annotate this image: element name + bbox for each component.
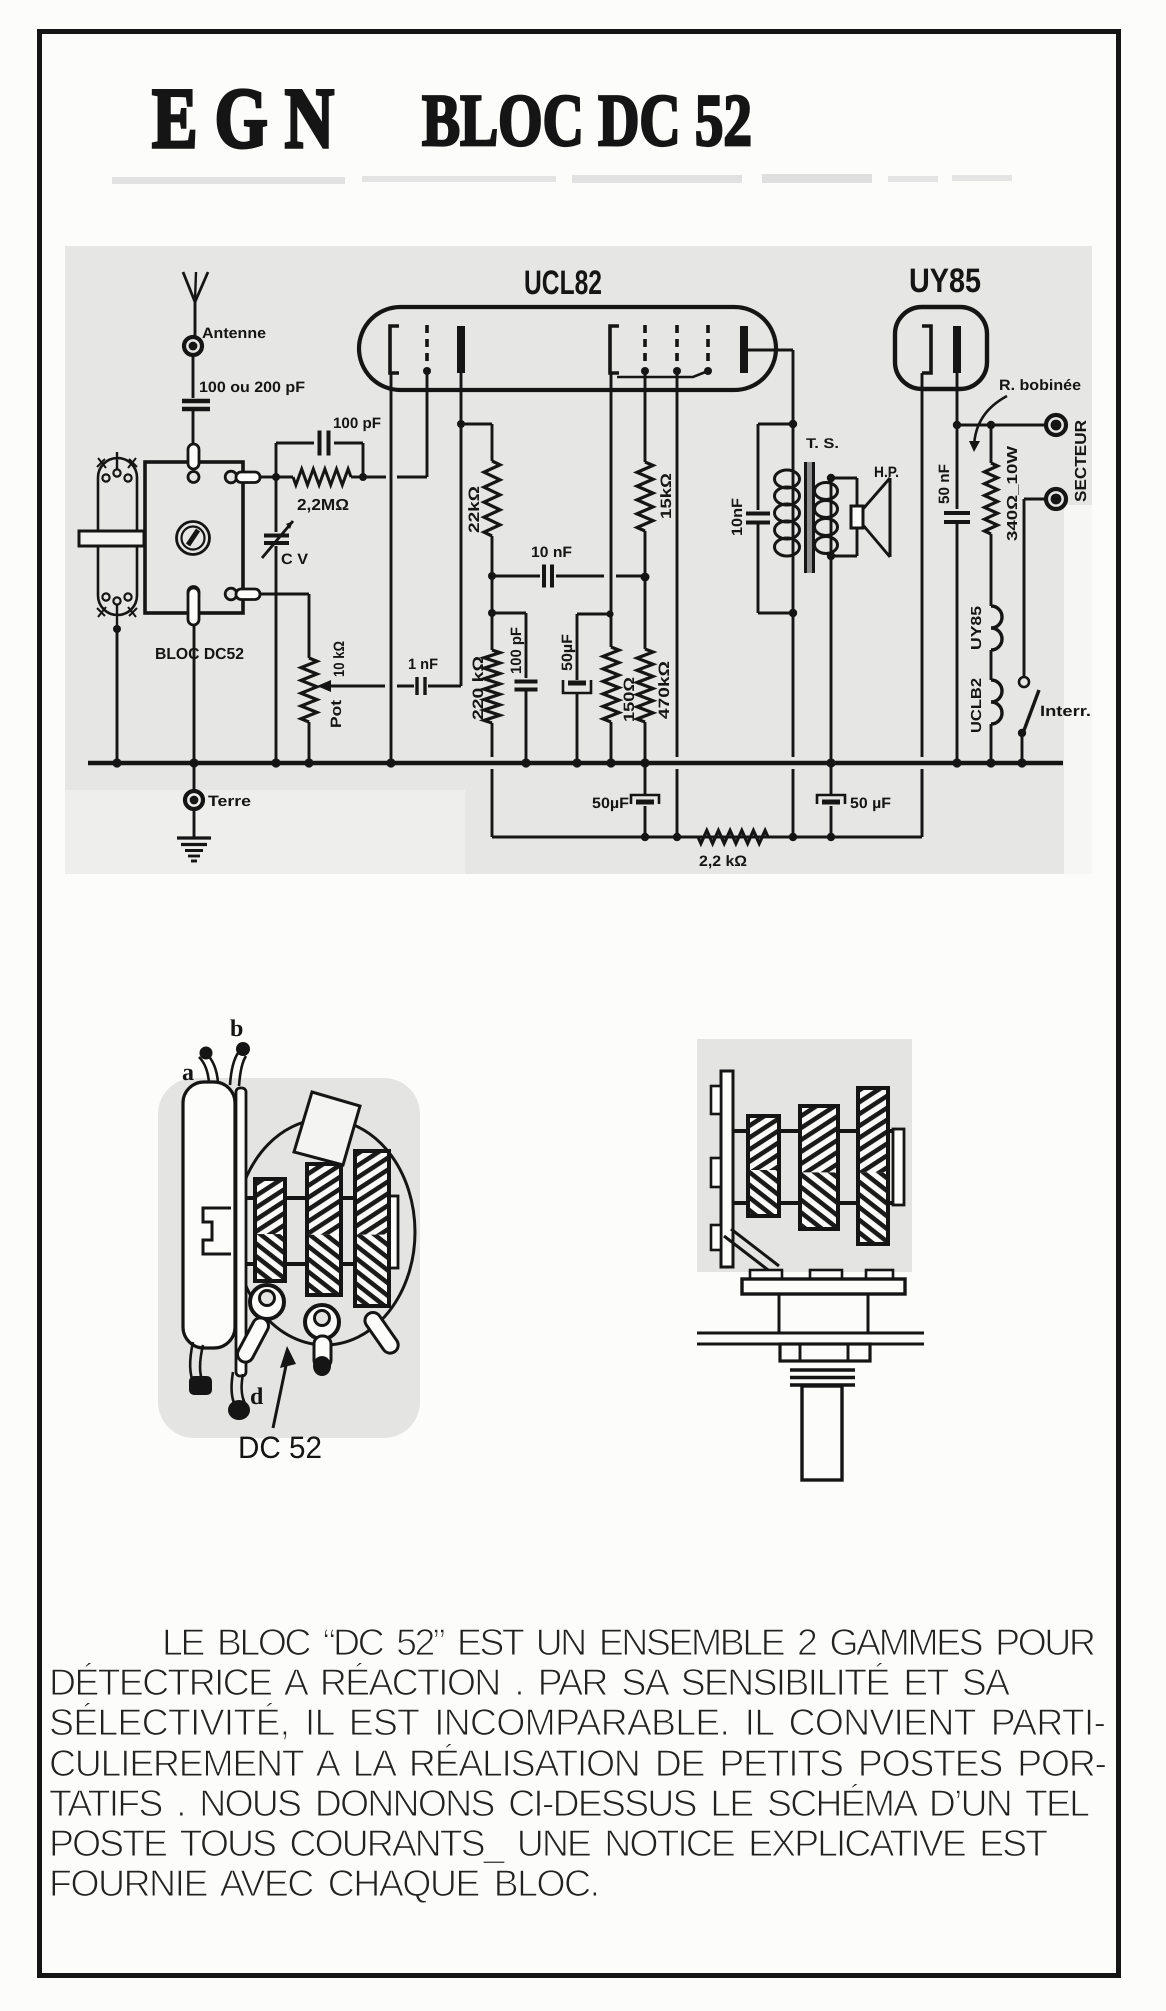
capacitor 10 nF (544, 565, 552, 588)
bloc top pin (188, 444, 199, 483)
title BLOC DC 52 (422, 80, 752, 162)
node TS sec bottom (827, 552, 835, 560)
svg-text:220 kΩ: 220 kΩ (470, 656, 487, 720)
wire 10nF to g1 node (556, 575, 645, 578)
svg-text:100 pF: 100 pF (333, 415, 381, 432)
label d (250, 1384, 264, 1410)
capacitor 50 µF cathode (563, 680, 591, 693)
lug right (362, 1309, 401, 1356)
label Terre (208, 793, 251, 810)
resistor 15 kΩ (637, 462, 653, 531)
node rail 677 (673, 833, 681, 841)
schematic scan background (65, 246, 1092, 874)
right drawing scan background (697, 1039, 912, 1272)
svg-text:CULIEREMENT A LA RÉALISATIO: CULIEREMENT A LA RÉALISATION DE PETITS P… (49, 1742, 1107, 1784)
svg-text:DÉTECTRICE A RÉACTION . PAR: DÉTECTRICE A RÉACTION . PAR SA SENSIBILI… (49, 1661, 1010, 1703)
label R. bobinee (999, 377, 1081, 394)
label BLOC DC52 (155, 646, 244, 663)
UCL82 triode anode (457, 326, 465, 373)
wire HT to secteur (957, 424, 1047, 427)
node rail 831 (827, 833, 835, 841)
wire node E to lower rail (hop bus) (792, 613, 795, 837)
transformer TS core (805, 462, 814, 573)
capacitor 100 pF top (320, 431, 329, 456)
label 150 Ω (621, 677, 638, 722)
label UY85 heater (969, 606, 985, 650)
wire to 50uF1 (577, 614, 610, 680)
ferrite rod (79, 531, 144, 546)
svg-text:LE BLOC “DC 52” EST UN ENS: LE BLOC “DC 52” EST UN ENSEMBLE 2 GAMMES… (162, 1621, 1096, 1663)
wire wiper to 1nF (hop at cathode) (330, 685, 414, 688)
UCL82 triode grid (423, 325, 431, 375)
UCL82 pentode anode (740, 326, 748, 373)
chassis (697, 1333, 924, 1344)
svg-text:10nF: 10nF (729, 498, 746, 536)
wire UY85 cathode to lower rail (hop bus) (921, 373, 924, 833)
nut (780, 1344, 870, 1361)
wire node C to 10nF (hop at 610) (492, 575, 540, 578)
node heater chain top (987, 421, 995, 429)
label SECTEUR (1073, 420, 1090, 502)
svg-text:2,2MΩ: 2,2MΩ (297, 497, 349, 514)
wire tone cap to node E (758, 523, 793, 613)
UCL82 pentode cathode (610, 326, 619, 373)
plate tab 2 (711, 1158, 721, 1187)
node anode TS (789, 420, 797, 428)
node anode junction (457, 420, 465, 428)
node rail 793 (789, 833, 797, 841)
svg-text:E G N: E G N (152, 70, 334, 166)
bloc right bottom pin (225, 588, 260, 600)
svg-text:BLOC DC52: BLOC DC52 (155, 646, 244, 663)
lug ring 2 (305, 1305, 339, 1376)
UCL82 g3-cathode strap (617, 371, 708, 377)
bus node x526 (521, 758, 530, 767)
wire 100pF to bus (525, 690, 528, 763)
wire heater to bus (990, 724, 993, 763)
label T. S. (806, 435, 839, 451)
capacitor CV variable (262, 477, 293, 558)
label 220 kΩ (470, 656, 487, 720)
plate bracket (203, 1208, 231, 1254)
capacitor 50 µF filter 2 (817, 795, 845, 804)
svg-text:d: d (250, 1384, 264, 1410)
capacitor 10nF tone (746, 514, 770, 523)
bus node x117 (112, 758, 121, 767)
label 100 ou 200 pF (199, 379, 305, 396)
bus node x194 (189, 758, 198, 767)
wire c bottom (189, 1342, 212, 1395)
svg-text:FOURNIE AVEC CHAQUE BLOC.: FOURNIE AVEC CHAQUE BLOC. (49, 1862, 600, 1904)
shaft (802, 1386, 842, 1480)
label H.P. (874, 464, 899, 481)
bus node x831 (826, 758, 835, 767)
arrow to DC 52 (273, 1346, 296, 1428)
wire node D to 220k (491, 613, 494, 650)
wire bloc pin to node A (260, 476, 276, 479)
label 50 µF cathode (559, 634, 576, 671)
svg-text:50µF: 50µF (592, 795, 629, 812)
svg-text:100 ou 200 pF: 100 ou 200 pF (199, 379, 305, 396)
tuning knob (177, 522, 210, 555)
svg-text:Antenne: Antenne (202, 325, 266, 342)
flag tab (294, 1092, 360, 1165)
svg-text:R. bobinée: R. bobinée (999, 377, 1081, 394)
label Pot (328, 700, 345, 728)
resistor 22 kΩ (484, 461, 500, 536)
label DC 52 (238, 1430, 322, 1465)
capacitor 50 nF (944, 425, 970, 763)
svg-text:UY85: UY85 (969, 606, 985, 650)
label 50 µF filter 1 (592, 795, 629, 812)
coil can outline (235, 1119, 415, 1345)
svg-text:22kΩ: 22kΩ (466, 486, 483, 533)
label UY85 (909, 262, 981, 300)
svg-text:T. S.: T. S. (806, 435, 839, 451)
wire capacitor to bloc pin (192, 411, 195, 446)
ground bus (88, 761, 1063, 766)
plate tab 1 (711, 1086, 721, 1114)
node TS sec top (827, 474, 835, 482)
label 340 Ω 10W (1005, 446, 1021, 541)
coil winding 1 (255, 1179, 285, 1281)
pot wiper arrow (317, 680, 331, 692)
wire 470k to bus (644, 722, 647, 763)
antenna (183, 272, 208, 337)
wire CV to bus (275, 546, 278, 763)
right winding 1 (748, 1116, 779, 1216)
svg-text:b: b (230, 1016, 243, 1042)
bus node x391 (386, 758, 395, 767)
diagonal strut (724, 1229, 779, 1273)
switch Interr (1018, 677, 1039, 763)
capacitor 1 nF (417, 677, 425, 695)
coil winding 3 (355, 1151, 389, 1306)
label 2,2 MΩ (297, 497, 349, 514)
capacitor 100 ou 200 pF (182, 401, 210, 409)
wire bloc pin to pot (260, 594, 309, 658)
node rail 645 (641, 833, 649, 841)
svg-text:1 nF: 1 nF (408, 656, 438, 673)
wire resistor leads (276, 476, 363, 479)
wire TS to speaker (831, 478, 857, 556)
label b (230, 1016, 243, 1042)
BLOC DC52 box (145, 462, 243, 613)
label 100 pF vertical (508, 627, 525, 674)
former plate left (183, 1082, 235, 1348)
svg-text:C V: C V (281, 551, 308, 568)
coil bottom windings (97, 593, 137, 629)
wire node D to 100pF (492, 613, 526, 678)
wire node B to grid (hop at cathode) (363, 476, 427, 479)
svg-text:H.P.: H.P. (874, 464, 899, 481)
wire TS secondary to bus (830, 556, 833, 763)
plate tab 3 (711, 1225, 721, 1250)
UCL82 pentode grid g2 (673, 325, 681, 375)
label 50 µF filter 2 (850, 795, 891, 812)
label CV (281, 551, 308, 568)
svg-text:100 pF: 100 pF (508, 627, 525, 674)
UY85 cathode (922, 326, 931, 373)
wire pot to bus (308, 722, 311, 763)
svg-text:UCL82: UCL82 (524, 264, 602, 302)
wire 22k to node C (491, 536, 494, 576)
bus node x276 (271, 758, 280, 767)
tube UCL82 envelope (359, 307, 776, 390)
node UY85 anode (953, 421, 961, 429)
UCL82 heater (991, 680, 1002, 724)
node coil-ground junction (113, 625, 121, 633)
right former plate (721, 1071, 733, 1267)
resistor 470 kΩ (637, 649, 653, 722)
wire antenna to capacitor (192, 355, 195, 398)
svg-text:10 kΩ: 10 kΩ (331, 641, 348, 677)
resistor 2,2 kΩ (698, 831, 768, 844)
svg-text:SECTEUR: SECTEUR (1073, 420, 1090, 502)
mounting plate (742, 1279, 905, 1294)
wire bloc bottom to bus (193, 625, 196, 763)
label 10nF tone (729, 498, 746, 536)
secteur terminal top (1046, 415, 1066, 435)
capacitor 100 pF cathode (515, 682, 538, 690)
UCL82 pentode grid g3 (704, 325, 712, 375)
svg-text:340Ω_10W: 340Ω_10W (1005, 446, 1021, 541)
label 10 nF (531, 544, 572, 561)
wire triode cathode to bus (390, 373, 393, 763)
svg-text:DC 52: DC 52 (238, 1430, 322, 1465)
node C (488, 572, 496, 580)
thread lines (790, 1370, 855, 1385)
label 15 kΩ (658, 473, 675, 519)
wire UY85 anode down (956, 373, 959, 425)
svg-text:BLOC DC 52: BLOC DC 52 (422, 80, 752, 162)
svg-text:150Ω: 150Ω (621, 677, 638, 722)
label 100 pF (333, 415, 381, 432)
paragraph text (49, 1621, 1107, 1904)
wire bus to 50uF3 (830, 763, 833, 795)
bloc right top pin (225, 471, 260, 483)
svg-text:Terre: Terre (208, 793, 251, 810)
speaker HP (851, 478, 890, 557)
bus node x645 (640, 758, 649, 767)
arrow R bobinee (969, 396, 1007, 452)
secteur terminal bottom (1046, 489, 1066, 509)
bloc bottom pin (188, 587, 199, 626)
transformer TS primary (775, 424, 800, 613)
wire d bottom (228, 1372, 250, 1420)
wire 50uF3 to rail (830, 806, 833, 837)
base tab 2 (810, 1270, 842, 1279)
lug ring 1 (235, 1285, 284, 1365)
right winding 3 (858, 1088, 888, 1244)
wire 220k to lower rail (hop bus) (491, 723, 494, 837)
svg-text:2,2 kΩ: 2,2 kΩ (699, 853, 747, 870)
bus node x309 (304, 758, 313, 767)
wire g1 down (644, 371, 647, 462)
former plate strip (236, 1088, 246, 1376)
mount legs (779, 1294, 868, 1333)
wire pentode cathode down (610, 373, 613, 647)
svg-text:UY85: UY85 (909, 262, 981, 300)
right winding 2 (800, 1106, 838, 1229)
label 470 kΩ (656, 661, 673, 719)
wire node g1 to 470k (644, 577, 647, 649)
svg-text:50 µF: 50 µF (850, 795, 891, 812)
node cathode-50uF (606, 610, 613, 617)
coil winding 2 (307, 1164, 341, 1295)
svg-text:TATIFS . NOUS DONNONS CI-DES: TATIFS . NOUS DONNONS CI-DESSUS LE SCHÉM… (49, 1782, 1090, 1824)
bus node x991 (986, 758, 995, 767)
label 1 nF (408, 656, 438, 673)
label 50 nF (936, 464, 953, 504)
svg-text:Pot: Pot (328, 700, 345, 728)
wire 15k to node g1 (644, 531, 647, 576)
wire 50uF1 to bus (576, 693, 579, 763)
svg-text:POSTE TOUS COURANTS_ UNE N: POSTE TOUS COURANTS_ UNE NOTICE EXPLICAT… (49, 1822, 1048, 1864)
svg-text:15kΩ: 15kΩ (658, 473, 675, 519)
UY85 anode (953, 326, 961, 373)
resistor 220 kΩ (484, 650, 500, 723)
wire g2 to lower rail (hop bus) (676, 371, 679, 837)
label 10 kΩ (331, 641, 348, 677)
wire 1nF to anode line (428, 685, 461, 688)
wire pentode anode out (748, 350, 793, 424)
svg-text:Interr.: Interr. (1040, 703, 1091, 720)
wire anode jog to 22k (461, 424, 492, 461)
lower HT rail (492, 769, 922, 837)
label 22 kΩ (466, 486, 483, 533)
wire tone cap branch (758, 424, 793, 510)
svg-text:470kΩ: 470kΩ (656, 661, 673, 719)
wire bus to 50uF2 (644, 763, 647, 795)
wire secteur to switch (1024, 499, 1046, 677)
node B (359, 473, 367, 481)
wire between heaters (990, 650, 993, 680)
wire triode grid down (426, 371, 429, 477)
wire 150 to bus (610, 722, 613, 763)
label Antenne (202, 325, 266, 342)
wire node A up-right to 100pF (276, 443, 314, 477)
svg-text:10 nF: 10 nF (531, 544, 572, 561)
label a (182, 1060, 194, 1086)
svg-text:SÉLECTIVITÉ, IL EST INCOMPAR: SÉLECTIVITÉ, IL EST INCOMPARABLE. IL CON… (49, 1701, 1106, 1743)
coil top windings (97, 452, 137, 482)
resistor 2,2 MΩ (293, 469, 351, 485)
transformer TS secondary (815, 478, 838, 556)
title EGN (152, 70, 334, 166)
wire 100pF to node B (334, 443, 363, 477)
terre terminal (185, 791, 203, 809)
UCL82 triode cathode (390, 326, 399, 373)
bus node x577 (572, 758, 581, 767)
node E (789, 609, 797, 617)
node g1 (641, 573, 650, 582)
node A (272, 473, 280, 481)
ground symbol (177, 809, 211, 861)
wire 50uF2 to rail (644, 806, 647, 837)
label UCLB2 heater (969, 678, 985, 733)
label UCL82 (524, 264, 602, 302)
potentiometer 10 kΩ (301, 658, 317, 722)
label Interr. (1040, 703, 1091, 720)
wire bus to terre (193, 763, 196, 792)
tube UY85 envelope (895, 307, 987, 389)
base tab 3 (866, 1270, 893, 1279)
wire a (199, 1047, 218, 1084)
wire triode anode down (460, 373, 463, 686)
UCL82 pentode grid g1 (641, 325, 649, 375)
smudge line (112, 174, 1012, 184)
UY85 heater (991, 606, 1002, 650)
node D (488, 609, 496, 617)
antenna terminal (184, 337, 202, 355)
bus node x611 (606, 758, 615, 767)
right axis rails (733, 1129, 904, 1205)
resistor 340 Ω 10W (985, 425, 998, 606)
bus node x957 (952, 758, 961, 767)
base tab 1 (750, 1270, 782, 1279)
resistor 150 Ω (603, 647, 619, 722)
coil former racetrack (98, 458, 137, 615)
bus node x1022 (1017, 758, 1026, 767)
left drawing scan background (158, 1078, 420, 1438)
wire coil to bus (116, 629, 119, 763)
wire b (230, 1042, 250, 1086)
svg-text:50µF: 50µF (559, 634, 576, 671)
axis rails left (246, 1196, 398, 1268)
svg-text:UCLB2: UCLB2 (969, 678, 985, 733)
capacitor 50 µF filter 1 (631, 795, 659, 804)
wire node C to node D (491, 576, 494, 613)
svg-text:a: a (182, 1060, 194, 1086)
label 2,2 kΩ (699, 853, 747, 870)
svg-text:50 nF: 50 nF (936, 464, 953, 504)
